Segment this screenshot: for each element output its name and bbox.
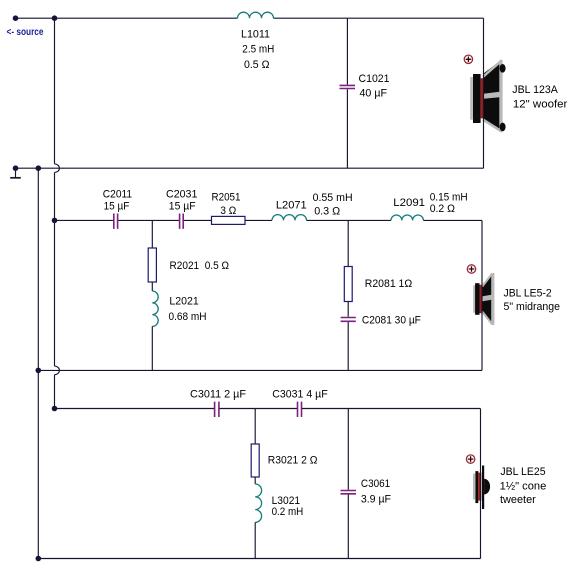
wire C3061 branch lower	[347, 495, 349, 559]
wire hop over top return	[55, 164, 60, 173]
capacitor C2011	[114, 214, 118, 229]
label C1021	[359, 73, 390, 100]
wire R2021 to L2021	[151, 282, 153, 291]
wire C1021 branch upper	[346, 18, 348, 84]
wire signal rail upper	[54, 18, 56, 164]
svg-text:1½" cone: 1½" cone	[500, 481, 547, 493]
polarity mark midrange	[467, 265, 475, 273]
wire C2081 branch lower	[347, 322, 349, 370]
wire mid return rail	[38, 369, 482, 371]
label tweeter	[500, 466, 547, 506]
wire midrange right rail	[481, 220, 483, 370]
ground	[10, 168, 21, 178]
svg-text:C2031: C2031	[166, 189, 197, 201]
wire hop over mid return	[55, 220, 60, 408]
wire R2021 branch upper	[151, 220, 153, 248]
svg-text:C3011 2 µF: C3011 2 µF	[190, 389, 246, 401]
label C3031	[272, 389, 328, 401]
svg-text:12" woofer: 12" woofer	[513, 99, 568, 111]
wire R3021 to L3021	[254, 477, 256, 484]
svg-text:<- source: <- source	[7, 27, 44, 38]
label L2021	[169, 296, 207, 324]
svg-text:40 µF: 40 µF	[360, 88, 388, 100]
wire signal rail to midrange	[54, 173, 56, 221]
wire mid rail seg1	[55, 219, 114, 221]
svg-text:C3031 4 µF: C3031 4 µF	[272, 389, 328, 401]
node mid return junction	[36, 368, 42, 374]
wire top rail left segment	[16, 17, 238, 19]
label C2081	[362, 315, 421, 327]
wire L2021 branch lower	[151, 326, 153, 370]
svg-text:C2081 30 µF: C2081 30 µF	[362, 315, 421, 327]
svg-text:0.68 mH: 0.68 mH	[169, 311, 207, 323]
wire mid rail seg4	[245, 219, 272, 221]
label L3021	[272, 495, 304, 518]
capacitor C2081	[341, 318, 356, 322]
wire mid rail seg2	[118, 219, 179, 221]
resistor R3021	[251, 444, 259, 477]
label L1011	[241, 29, 274, 72]
label woofer	[512, 84, 567, 111]
wire ground rail	[37, 168, 39, 558]
node top junction	[52, 15, 58, 21]
label R2021	[170, 260, 230, 272]
svg-text:0.5 Ω: 0.5 Ω	[244, 59, 270, 71]
node ground terminal	[13, 165, 19, 171]
svg-text:C1021: C1021	[359, 73, 390, 85]
svg-text:C2011: C2011	[103, 189, 132, 201]
node ground rail junction	[36, 165, 42, 171]
resistor R2051	[212, 216, 246, 224]
svg-text:0.2 Ω: 0.2 Ω	[430, 203, 455, 215]
wire R2081 to C2081	[347, 302, 349, 317]
wire tweeter right rail	[480, 409, 482, 559]
svg-text:0.3 Ω: 0.3 Ω	[314, 205, 340, 217]
wire bottom return rail	[38, 558, 480, 560]
svg-text:15 µF: 15 µF	[169, 201, 196, 213]
label L2091	[393, 191, 467, 215]
wire R3021 branch upper	[254, 409, 256, 445]
wire mid rail seg3	[184, 219, 212, 221]
svg-text:0.55 mH: 0.55 mH	[313, 192, 353, 204]
capacitor C3011	[215, 402, 219, 417]
node bottom return junction	[36, 556, 42, 562]
label C3061	[361, 478, 391, 506]
svg-text:JBL LE25: JBL LE25	[500, 466, 545, 478]
inductor L2071	[272, 215, 307, 221]
svg-text:0.2 mH: 0.2 mH	[272, 506, 304, 518]
label C2031	[166, 189, 197, 213]
inductor L3021	[255, 484, 261, 522]
speaker JBL LE5-2 midrange	[473, 273, 494, 325]
inductor L2091	[391, 215, 423, 220]
capacitor C3061	[341, 491, 357, 494]
node source + terminal	[13, 15, 19, 21]
svg-text:R3021 2 Ω: R3021 2 Ω	[268, 455, 318, 467]
svg-text:L2021: L2021	[169, 296, 198, 308]
wire bottom rail seg1	[55, 408, 215, 410]
svg-text:R2021 0.5 Ω: R2021 0.5 Ω	[170, 260, 230, 272]
label R3021	[268, 455, 318, 467]
svg-text:15 µF: 15 µF	[104, 201, 130, 213]
wire top rail right segment	[274, 17, 484, 19]
label L2071	[276, 192, 353, 217]
wire L3021 branch lower	[254, 522, 256, 558]
label R2081	[365, 278, 412, 290]
svg-text:L1011: L1011	[241, 29, 270, 41]
resistor R2021	[148, 248, 156, 282]
svg-text:R2081 1Ω: R2081 1Ω	[365, 278, 412, 290]
wire top return rail	[16, 167, 484, 169]
svg-text:3 Ω: 3 Ω	[220, 205, 236, 217]
capacitor C3031	[298, 402, 302, 417]
svg-text:R2051: R2051	[212, 192, 241, 204]
node midrange input	[52, 218, 58, 224]
label R2051	[212, 192, 241, 217]
capacitor C1021	[340, 85, 356, 88]
polarity mark woofer	[464, 55, 472, 63]
svg-text:2.5 mH: 2.5 mH	[242, 44, 274, 56]
speaker JBL 123A woofer	[470, 60, 505, 132]
svg-text:L2091: L2091	[393, 197, 425, 209]
svg-text:JBL 123A: JBL 123A	[512, 84, 558, 96]
wire C3061 branch upper	[347, 409, 349, 490]
wire bottom rail seg2	[220, 408, 298, 410]
speaker JBL LE25 tweeter	[473, 466, 490, 510]
svg-text:C3061: C3061	[361, 478, 390, 490]
capacitor C2031	[180, 214, 184, 229]
label C2011	[103, 189, 132, 213]
wire bottom rail seg3	[302, 408, 481, 410]
svg-text:3.9 µF: 3.9 µF	[361, 494, 391, 506]
svg-text:JBL LE5-2: JBL LE5-2	[504, 288, 552, 300]
inductor L1011	[238, 12, 274, 18]
node tweeter input	[52, 406, 58, 412]
wire C1021 branch lower	[346, 89, 348, 168]
svg-text:tweeter: tweeter	[500, 494, 536, 506]
polarity mark tweeter	[466, 455, 474, 463]
svg-text:0.15 mH: 0.15 mH	[430, 191, 468, 203]
svg-text:5" midrange: 5" midrange	[504, 301, 561, 313]
svg-text:L2071: L2071	[276, 200, 307, 212]
label midrange	[504, 288, 561, 314]
wire mid rail seg5	[307, 219, 392, 221]
resistor R2081	[344, 267, 352, 302]
label source	[7, 27, 44, 38]
wire woofer right rail	[483, 18, 485, 168]
inductor L2021	[152, 291, 158, 326]
wire R2081 branch upper	[347, 220, 349, 266]
label C3011	[190, 389, 246, 401]
wire mid rail seg6	[423, 219, 482, 221]
